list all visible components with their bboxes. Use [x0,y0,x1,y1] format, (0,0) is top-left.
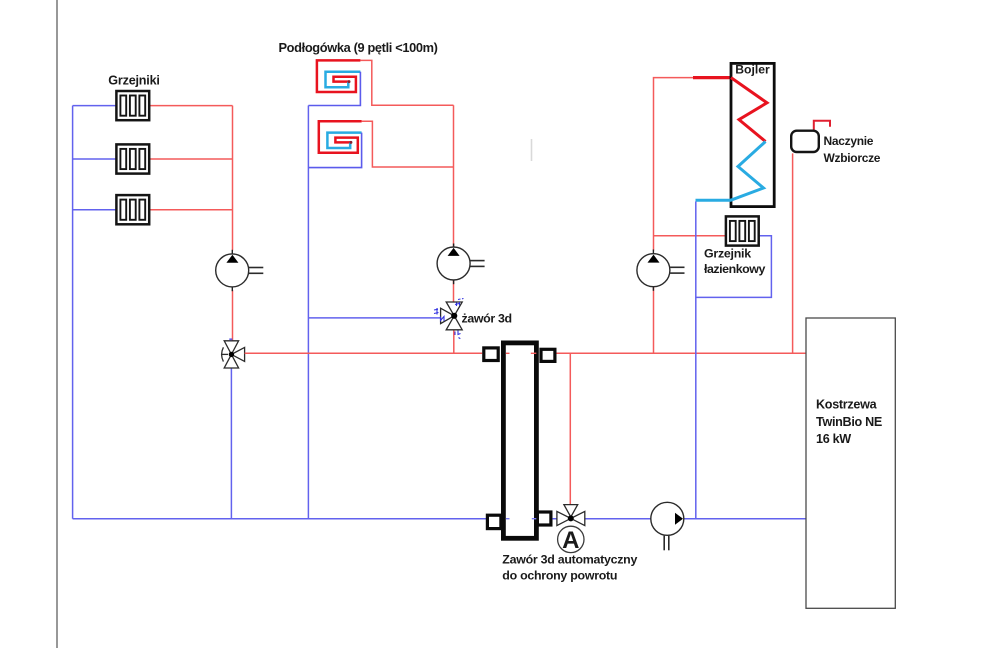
wire blue bathroom radiator loop [696,236,772,298]
pump P2 [437,244,485,285]
svg-text:A: A [562,527,579,554]
wire blue supply stub radiator 2 [73,158,116,160]
wire red branch to bathroom radiator [654,235,726,237]
radiator R2 [116,144,149,173]
wire cyan Bojler outlet [696,199,732,202]
valve Z1 3-way mixing [222,341,245,368]
svg-text:Zawór 3d automatyczny: Zawór 3d automatyczny [502,553,637,567]
separator port top-left [484,348,498,361]
svg-text:Bojler: Bojler [735,63,770,77]
svg-text:żawór 3d: żawór 3d [462,311,512,325]
wire red connector coil2 to riser [362,121,454,167]
boiler Kostrzewa [806,318,895,608]
wire red drop to valve Z3 [569,353,571,505]
valve Z3 plug dot [568,515,574,521]
wire blue riser left [72,106,74,519]
Bojler coil cyan part [731,142,766,201]
pump P4 [651,502,684,550]
svg-text:Wzbiorcze: Wzbiorcze [824,151,881,165]
separator port bottom-right [537,512,551,525]
wire red expansion vessel hook [814,121,830,130]
wire red boiler-circuit top run [654,78,695,251]
bathroom radiator [726,216,759,245]
wire red pump P2 to valve Z2 [453,280,455,302]
faint artifact tick [531,139,533,161]
wire blue main return pump P4 to boiler [684,518,806,520]
page margin line [56,0,58,648]
Bojler tank [731,63,774,206]
wire red thick entry to Bojler [693,76,731,79]
valve Z2 blue ink marks [434,299,464,339]
radiator R1 [116,91,149,120]
wire red riser floor-heating [453,105,455,247]
floor heating coil 1 [308,60,360,105]
svg-text:TwinBio NE: TwinBio NE [816,415,882,429]
pump P1 [216,250,264,291]
svg-text:Kostrzewa: Kostrzewa [816,398,878,412]
svg-text:Podłogówka (9 pętli <100m): Podłogówka (9 pętli <100m) [279,40,438,55]
wire blue floor-heating return riser [307,106,309,519]
ink speck above valve Z1 [229,338,232,340]
valve Z1 plug dot [229,352,234,357]
wire red stub radiator 3 [150,209,233,211]
svg-text:16 kW: 16 kW [816,432,851,446]
svg-text:do ochrony powrotu: do ochrony powrotu [502,569,617,583]
wire blue bathroom return riser [695,202,697,519]
wire red main supply left segment [245,352,483,354]
wire red expansion vessel drop [792,153,794,353]
wire red stubs inside separator [506,352,510,354]
svg-text:Grzejniki: Grzejniki [108,73,159,87]
hydraulic separator [503,343,536,538]
wire red connector coil1 to riser [360,60,453,105]
valve Z2 zawor 3d [441,302,463,330]
wire red stub radiator 1 [150,105,233,107]
wire red riser radiators [232,106,234,251]
wire red main supply right segment [557,352,807,354]
wire red pump P3 down to main supply [653,287,655,353]
wire blue supply stub radiator 3 [73,209,116,211]
floor heating coil 2 [308,121,361,167]
wire red pump P1 to valve Z1 [232,290,234,341]
expansion vessel [791,131,819,152]
valve Z2 plug dot [451,313,457,319]
separator port top-right [541,349,555,361]
wire blue branch to valve Z2 [308,317,440,319]
Bojler coil red part [731,78,767,142]
wire blue main return valve Z3 to pump P4 [552,518,651,520]
wire blue supply stub radiator 1 [73,105,116,107]
svg-text:łazienkowy: łazienkowy [704,262,765,276]
wire blue main return bottom [73,518,486,520]
svg-text:Grzejnik: Grzejnik [704,246,751,260]
wire blue stubs inside separator [506,518,510,520]
valve Z3 actuator circle A [558,526,584,552]
valve Z3 automatic 3-way [557,505,585,526]
svg-text:Naczynie: Naczynie [824,134,874,148]
separator port bottom-left [487,515,501,528]
radiator R3 [116,195,149,224]
wire red valve Z2 down to main supply [453,330,455,353]
pump P3 [637,250,685,291]
wire red stub radiator 2 [150,158,233,160]
wire blue from valve Z1 down to main return [230,368,232,519]
